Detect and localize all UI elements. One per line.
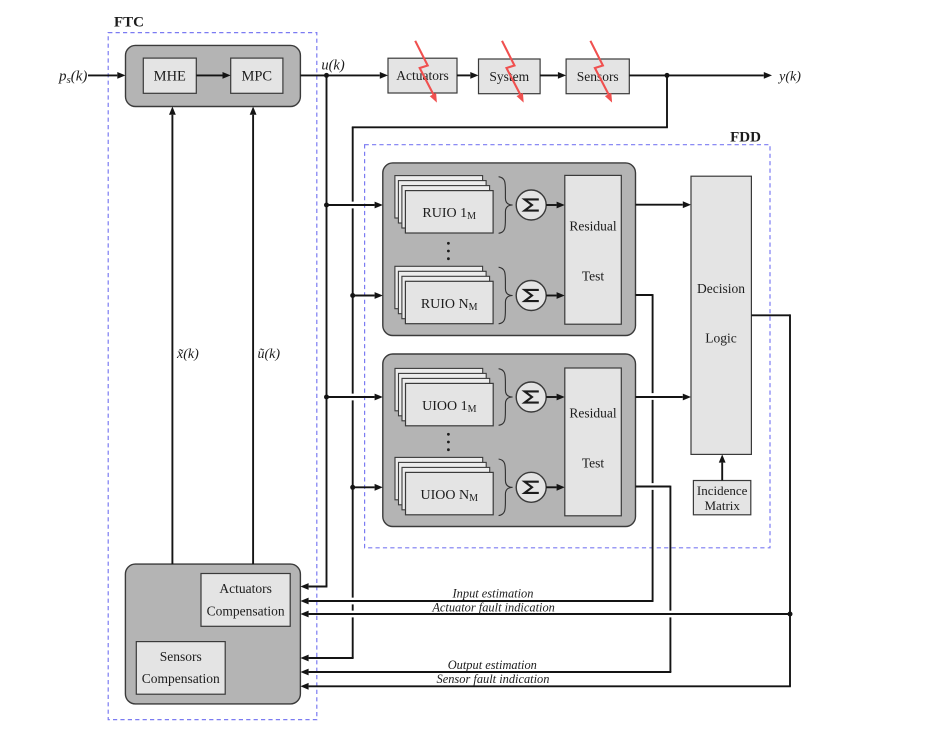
wire y to RUIO N: [353, 292, 383, 299]
wire FTC to Actuators: [300, 72, 388, 79]
wire u to RUIO 1: [327, 202, 383, 209]
svg-text:Logic: Logic: [705, 331, 737, 346]
wire decision logic output: [751, 314, 790, 686]
wire input estimation path: [636, 294, 653, 601]
FTC label: [114, 15, 144, 31]
wire incidence matrix to decision logic: [719, 454, 726, 480]
svg-text:ps(k): ps(k): [58, 69, 87, 87]
observer stack RUIO N: [395, 266, 493, 323]
wire sigma UIOON to residual test: [546, 484, 565, 491]
compensation container: [125, 564, 300, 704]
wire UIOO residuals to decision logic: [636, 394, 692, 401]
block MHE: [143, 58, 196, 93]
svg-text:Compensation: Compensation: [142, 671, 220, 686]
svg-text:y(k): y(k): [777, 69, 801, 84]
label u estimate: [258, 347, 281, 362]
brace UIOO 1: [499, 369, 513, 426]
label x estimate: [176, 347, 199, 362]
observer stack UIOO 1: [395, 368, 493, 425]
fault bolt on Sensors: [590, 41, 612, 103]
label Output estimation: [448, 658, 537, 672]
wire output estimation into compensation: [300, 669, 671, 676]
FDD label: [730, 130, 761, 146]
svg-text:Sensor fault indication: Sensor fault indication: [437, 672, 550, 686]
wire y to UIOO N: [353, 484, 383, 491]
svg-text:ũ(k): ũ(k): [258, 347, 281, 362]
node junction u-RUIO1: [324, 203, 329, 208]
summation node &#931; (RUIO 1): [516, 190, 546, 220]
wire Actuators to System: [457, 72, 479, 79]
wire y(k) feedback vertical: [352, 127, 354, 658]
brace UIOO N: [499, 459, 513, 516]
FDD region dashed frame: [365, 145, 770, 548]
brace RUIO N: [499, 267, 513, 324]
block Sensors Compensation: [136, 642, 225, 695]
label Sensor fault indication: [437, 672, 550, 686]
wire y(k) feedback top: [352, 75, 668, 127]
svg-text:Test: Test: [582, 455, 605, 470]
svg-text:Test: Test: [582, 269, 605, 284]
svg-text:Matrix: Matrix: [705, 498, 741, 513]
wire sigma RUIO1 to residual test: [546, 202, 565, 209]
label u(k): [321, 58, 345, 74]
summation node &#931; (UIOO 1): [516, 382, 546, 412]
vertical dots RUIO bank: [447, 242, 450, 260]
svg-text:u(k): u(k): [321, 58, 345, 74]
svg-text:System: System: [489, 69, 529, 84]
svg-text:MHE: MHE: [154, 68, 186, 84]
node y(k) junction: [665, 73, 670, 78]
FTC controller container: [126, 45, 301, 106]
svg-text:Residual: Residual: [569, 218, 616, 233]
node junction y-UIOON: [350, 485, 355, 490]
block System: [479, 59, 541, 94]
node u(k) junction: [324, 73, 329, 78]
wire RUIO residuals to decision logic: [636, 201, 692, 208]
block MPC: [231, 58, 283, 93]
wire state estimate to MHE: [169, 107, 176, 565]
wire sensor fault indication: [300, 683, 791, 690]
wire u(k) into actuators compensation: [300, 583, 327, 590]
svg-text:Actuators: Actuators: [219, 581, 271, 596]
block Actuators: [388, 58, 457, 93]
block Actuators Compensation: [201, 574, 290, 627]
vertical dots UIOO bank: [447, 433, 450, 451]
label Actuator fault indication: [431, 600, 555, 614]
wire sigma UIOO1 to residual test: [546, 394, 565, 401]
brace RUIO 1: [499, 177, 513, 234]
block Residual Test (RUIO): [565, 175, 622, 324]
UIOO bank container: [383, 354, 636, 527]
label Input estimation: [452, 586, 534, 600]
svg-text:FDD: FDD: [730, 130, 761, 146]
wire Sensors to y(k): [629, 72, 772, 79]
summation node &#931; (UIOO N): [516, 472, 546, 502]
svg-text:Decision: Decision: [697, 281, 745, 296]
node junction y-RUION: [350, 293, 355, 298]
node junction fault indication: [788, 612, 793, 617]
wire u(k) feedback vertical: [326, 75, 328, 586]
svg-text:Sensors: Sensors: [577, 69, 619, 84]
summation node &#931; (RUIO N): [516, 281, 546, 311]
fault bolt on Actuators: [415, 41, 437, 103]
svg-text:Compensation: Compensation: [207, 604, 285, 619]
block Incidence Matrix: [693, 481, 750, 515]
label y(k): [777, 69, 801, 84]
svg-text:Sensors: Sensors: [160, 649, 202, 664]
wire MHE to MPC: [196, 72, 230, 79]
wire y(k) into sensors compensation: [300, 655, 353, 662]
svg-text:Residual: Residual: [569, 405, 616, 420]
wire input estimation into compensation: [300, 598, 653, 605]
svg-text:Output estimation: Output estimation: [448, 658, 537, 672]
wire actuator fault indication: [300, 611, 790, 618]
RUIO bank container: [383, 163, 636, 336]
wire ps(k) input: [88, 72, 126, 79]
block Sensors: [566, 59, 629, 94]
label ps(k): [58, 69, 87, 87]
svg-text:MPC: MPC: [241, 68, 272, 84]
wire sigma RUION to residual test: [546, 292, 565, 299]
svg-text:Incidence: Incidence: [697, 483, 748, 498]
wire u to UIOO 1: [327, 394, 383, 401]
block Decision Logic: [691, 176, 751, 454]
FTC region dashed frame: [108, 33, 317, 720]
wire System to Sensors: [540, 72, 566, 79]
observer stack UIOO N: [395, 457, 493, 514]
wire input estimate to MPC: [250, 107, 257, 565]
svg-text:FTC: FTC: [114, 15, 144, 31]
fault bolt on System: [502, 41, 524, 103]
wire output estimation path: [636, 486, 671, 672]
observer stack RUIO 1: [395, 176, 493, 233]
svg-text:x̃(k): x̃(k): [176, 347, 199, 362]
svg-text:Actuators: Actuators: [396, 68, 448, 83]
svg-text:Actuator fault indication: Actuator fault indication: [431, 600, 555, 614]
node junction u-UIOO1: [324, 395, 329, 400]
block Residual Test (UIOO): [565, 368, 622, 516]
svg-text:Input estimation: Input estimation: [452, 586, 534, 600]
